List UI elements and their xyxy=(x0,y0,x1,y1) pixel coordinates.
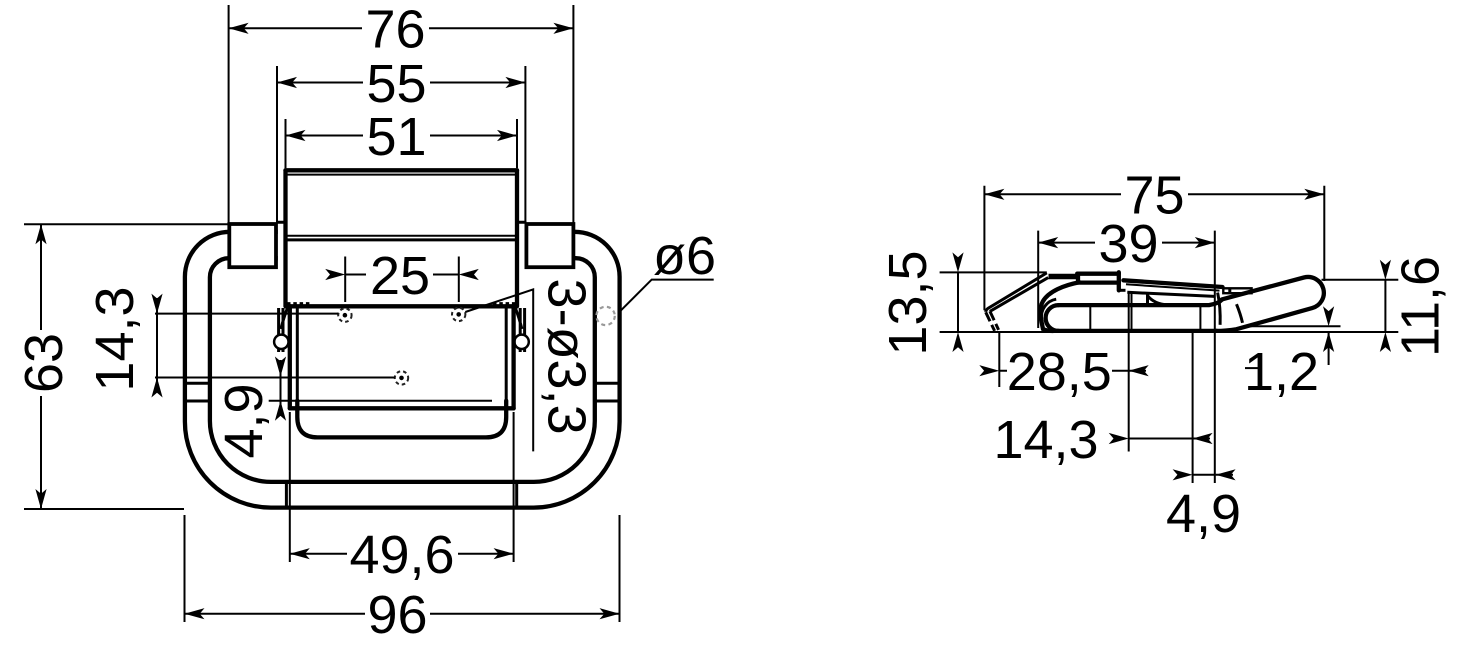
svg-text:13,5: 13,5 xyxy=(878,250,938,355)
svg-text:39: 39 xyxy=(1098,214,1158,274)
svg-text:14,3: 14,3 xyxy=(85,286,145,391)
svg-text:1,2: 1,2 xyxy=(1244,342,1319,402)
svg-text:4,9: 4,9 xyxy=(214,383,274,458)
svg-text:ø6: ø6 xyxy=(653,226,716,286)
svg-text:63: 63 xyxy=(14,333,74,393)
svg-text:51: 51 xyxy=(366,107,426,167)
svg-text:49,6: 49,6 xyxy=(349,525,454,585)
svg-text:55: 55 xyxy=(366,54,426,114)
svg-text:76: 76 xyxy=(365,0,425,60)
svg-text:14,3: 14,3 xyxy=(993,410,1098,470)
svg-text:4,9: 4,9 xyxy=(1166,484,1241,544)
svg-text:25: 25 xyxy=(370,246,430,306)
svg-text:28,5: 28,5 xyxy=(1007,342,1112,402)
svg-text:11,6: 11,6 xyxy=(1391,256,1451,357)
svg-text:96: 96 xyxy=(367,585,427,645)
svg-text:3-ø3,3: 3-ø3,3 xyxy=(537,279,597,435)
